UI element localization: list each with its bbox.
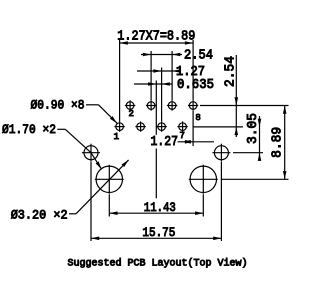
svg-text:1.27X7=8.89: 1.27X7=8.89: [117, 30, 195, 45]
svg-text:7: 7: [179, 131, 184, 141]
svg-text:1: 1: [114, 132, 119, 142]
svg-text:2.54: 2.54: [184, 48, 213, 63]
svg-text:Suggested PCB Layout(Top View): Suggested PCB Layout(Top View): [68, 258, 248, 270]
svg-text:8.89: 8.89: [270, 127, 285, 158]
svg-text:2: 2: [128, 109, 133, 119]
svg-text:1.27: 1.27: [151, 135, 179, 150]
svg-text:Ø3.20 ×2: Ø3.20 ×2: [11, 208, 68, 223]
svg-text:Ø1.70 ×2: Ø1.70 ×2: [2, 122, 56, 137]
svg-text:2.54: 2.54: [224, 56, 239, 87]
svg-text:8: 8: [195, 113, 200, 123]
svg-text:Ø0.90 ×8: Ø0.90 ×8: [31, 98, 85, 113]
svg-text:15.75: 15.75: [142, 226, 175, 240]
svg-text:11.43: 11.43: [144, 201, 176, 215]
svg-text:0.635: 0.635: [177, 78, 214, 93]
svg-text:3.05: 3.05: [246, 113, 261, 144]
